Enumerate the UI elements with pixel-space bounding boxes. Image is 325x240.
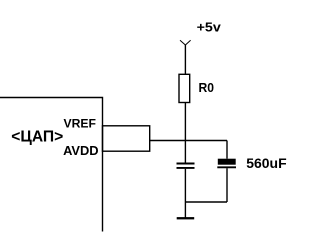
resistor R0 [179,74,190,102]
wire capacitor to ground [184,169,186,218]
capacitor C2 560uF electrolytic positive plate [218,159,236,165]
wire power to resistor [184,45,186,74]
svg-text:VREF: VREF [64,116,97,130]
op-amp U1 (DAC block ЦАП, clipped at left/bottom) [0,98,103,232]
capacitor C2 negative plate [217,166,236,168]
svg-text:<ЦАП>: <ЦАП> [11,129,63,146]
svg-text:AVDD: AVDD [63,144,99,158]
svg-text:+5v: +5v [197,20,222,35]
svg-text:560uF: 560uF [246,156,286,171]
wire join at bottom [185,201,227,203]
svg-text:R0: R0 [199,80,215,95]
wire branch down to electrolytic [226,141,228,159]
wire electrolytic to join [226,168,228,202]
capacitor C1 [177,163,195,165]
wire pin loop VREF/AVDD [103,126,150,151]
power +5v symbol [180,40,191,45]
wire resistor to capacitor [184,103,186,163]
wire from pins to node [150,140,227,142]
ground [177,217,195,219]
